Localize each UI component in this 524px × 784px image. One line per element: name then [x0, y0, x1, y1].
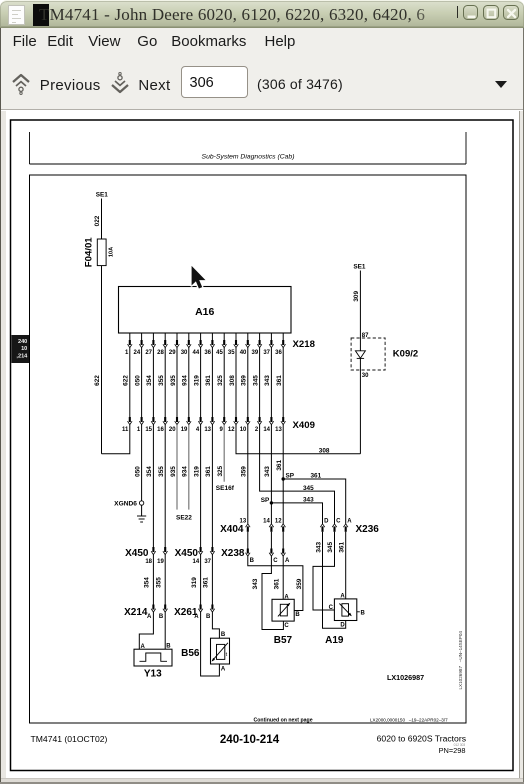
svg-text:35: 35	[228, 350, 235, 356]
svg-text:40: 40	[240, 350, 247, 356]
svg-text:39: 39	[252, 350, 259, 356]
svg-text:A: A	[347, 518, 352, 524]
svg-text:30: 30	[362, 373, 369, 379]
svg-text:F04/01: F04/01	[84, 237, 95, 268]
svg-text:343: 343	[264, 375, 271, 386]
svg-text:345: 345	[327, 542, 334, 553]
svg-text:319: 319	[193, 375, 200, 386]
svg-text:C: C	[329, 605, 334, 611]
svg-text:361: 361	[276, 375, 283, 386]
svg-text:C: C	[284, 623, 289, 629]
svg-text:A19: A19	[325, 635, 344, 646]
svg-text:X450: X450	[125, 548, 149, 559]
svg-text:10: 10	[21, 346, 27, 352]
svg-text:X218: X218	[293, 339, 316, 350]
svg-text:361: 361	[205, 466, 212, 477]
svg-text:361: 361	[276, 460, 283, 471]
svg-text:37: 37	[204, 559, 211, 565]
svg-text:X450: X450	[175, 548, 199, 559]
svg-text:A16: A16	[195, 306, 214, 318]
svg-text:934: 934	[182, 466, 189, 477]
svg-text:343: 343	[264, 466, 271, 477]
svg-text:B: B	[250, 558, 255, 564]
svg-text:354: 354	[144, 577, 151, 588]
svg-text:325: 325	[217, 465, 224, 476]
svg-text:354: 354	[146, 466, 153, 477]
svg-text:B: B	[206, 614, 211, 620]
svg-text:B57: B57	[274, 635, 293, 646]
svg-text:B56: B56	[181, 648, 200, 659]
svg-text:359: 359	[241, 466, 248, 477]
svg-text:10: 10	[240, 427, 247, 433]
svg-text:319: 319	[191, 577, 198, 588]
svg-text:A: A	[221, 667, 226, 673]
svg-text:359: 359	[241, 375, 248, 386]
svg-text:15: 15	[145, 427, 152, 433]
svg-text:LX1026987 –UN–14SEP04: LX1026987 –UN–14SEP04	[458, 631, 463, 690]
svg-text:022: 022	[94, 215, 101, 226]
svg-text:X236: X236	[356, 524, 380, 535]
svg-text:319: 319	[193, 466, 200, 477]
svg-text:361: 361	[339, 542, 346, 553]
svg-text:X238: X238	[221, 548, 245, 559]
svg-text:37: 37	[263, 350, 270, 356]
svg-text:SE1: SE1	[353, 264, 366, 271]
svg-text:Y13: Y13	[144, 669, 162, 680]
svg-text:361: 361	[205, 375, 212, 386]
svg-text:6020 to 6920S Tractors: 6020 to 6920S Tractors	[377, 734, 466, 744]
svg-text:19: 19	[157, 559, 164, 565]
svg-text:935: 935	[170, 466, 177, 477]
svg-text:20: 20	[169, 427, 176, 433]
svg-text:B: B	[159, 614, 164, 620]
svg-text:SE1: SE1	[96, 192, 109, 199]
svg-text:345: 345	[303, 485, 314, 492]
svg-text:PN=298: PN=298	[439, 746, 466, 755]
svg-text:325: 325	[217, 375, 224, 386]
svg-text:SE16f: SE16f	[216, 485, 235, 492]
svg-text:C: C	[336, 518, 341, 524]
svg-text:343: 343	[315, 542, 322, 553]
svg-text:13: 13	[275, 427, 282, 433]
svg-text:12: 12	[228, 427, 235, 433]
svg-text:,214: ,214	[16, 353, 28, 359]
svg-text:A: A	[340, 594, 345, 600]
svg-text:D: D	[324, 518, 329, 524]
svg-text:36: 36	[275, 350, 282, 356]
svg-text:345: 345	[252, 375, 259, 386]
svg-text:SP: SP	[261, 497, 270, 504]
svg-text:C: C	[273, 558, 278, 564]
svg-text:19: 19	[181, 427, 188, 433]
svg-text:X261: X261	[174, 607, 198, 618]
svg-text:361: 361	[274, 578, 281, 589]
svg-text:240: 240	[18, 339, 27, 345]
svg-text:354: 354	[146, 375, 153, 386]
svg-text:B: B	[221, 632, 226, 638]
svg-text:343: 343	[303, 496, 314, 503]
svg-text:308: 308	[319, 447, 330, 454]
svg-text:30: 30	[181, 350, 188, 356]
svg-text:12: 12	[275, 518, 282, 524]
svg-text:14: 14	[263, 427, 270, 433]
svg-text:343: 343	[252, 578, 259, 589]
svg-text:18: 18	[145, 559, 152, 565]
svg-text:14: 14	[193, 559, 200, 565]
svg-text:36: 36	[204, 350, 211, 356]
svg-text:87: 87	[362, 333, 369, 339]
svg-text:B: B	[295, 612, 300, 618]
svg-text:355: 355	[158, 375, 165, 386]
svg-text:361: 361	[311, 472, 322, 479]
svg-text:29: 29	[169, 350, 176, 356]
svg-text:309: 309	[353, 291, 360, 302]
svg-text:622: 622	[94, 375, 101, 386]
svg-text:SE22: SE22	[176, 515, 192, 522]
svg-text:24: 24	[134, 350, 141, 356]
svg-text:359: 359	[296, 578, 303, 589]
svg-text:935: 935	[170, 375, 177, 386]
svg-text:622: 622	[123, 375, 130, 386]
svg-text:44: 44	[193, 350, 200, 356]
svg-text:D: D	[340, 622, 345, 628]
svg-text:45: 45	[216, 350, 223, 356]
svg-text:TM4741 (01OCT02): TM4741 (01OCT02)	[31, 734, 108, 744]
svg-text:13: 13	[204, 427, 211, 433]
svg-text:X404: X404	[220, 524, 244, 535]
svg-text:16: 16	[157, 427, 164, 433]
svg-text:X409: X409	[293, 420, 315, 431]
svg-text:A: A	[285, 558, 290, 564]
svg-text:LX2000,0000150 –19–22APR02–3: LX2000,0000150 –19–22APR02–3/7	[370, 717, 448, 722]
svg-text:XGND6: XGND6	[114, 500, 137, 507]
svg-text:11: 11	[122, 427, 129, 433]
svg-text:050: 050	[134, 466, 141, 477]
svg-text:10A: 10A	[108, 247, 114, 257]
svg-text:K09/2: K09/2	[393, 349, 418, 360]
svg-text:Continued on next page: Continued on next page	[254, 717, 313, 723]
svg-text:355: 355	[155, 577, 162, 588]
svg-text:240-10-214: 240-10-214	[220, 733, 280, 746]
svg-text:361: 361	[203, 577, 210, 588]
svg-text:28: 28	[157, 350, 164, 356]
svg-text:308: 308	[229, 375, 236, 386]
svg-text:A: A	[147, 614, 152, 620]
svg-text:LX1026987: LX1026987	[387, 673, 424, 682]
svg-text:27: 27	[145, 350, 152, 356]
svg-text:X214: X214	[124, 607, 148, 618]
svg-text:355: 355	[158, 466, 165, 477]
svg-text:A: A	[284, 595, 289, 601]
svg-text:B: B	[361, 610, 366, 616]
svg-text:14: 14	[263, 518, 270, 524]
svg-text:934: 934	[182, 375, 189, 386]
svg-text:050: 050	[134, 375, 141, 386]
svg-text:Sub-System Diagnostics (Cab): Sub-System Diagnostics (Cab)	[202, 153, 295, 160]
